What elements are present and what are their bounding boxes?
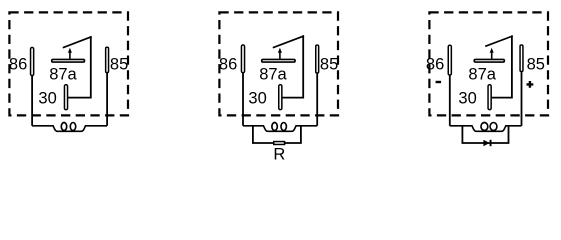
relay 2 suppression branch wires [253,126,301,143]
relay 3 pin label 30 [458,89,476,107]
relay 3 switch armature [486,36,512,46]
relay 3 contact label 87a [468,66,496,84]
relay 3 switch arrow [490,48,494,59]
relay 3 pin label 85 [527,55,545,73]
svg-text:87a: 87a [49,66,77,84]
svg-text:86: 86 [9,56,27,74]
relay 3 wire pin 86 to coil [449,75,451,126]
relay 1 dashed enclosure [9,12,128,115]
relay 2 pin label 86 [219,56,237,74]
svg-text:30: 30 [38,89,56,107]
relay 1 terminal pin 85 [106,47,109,72]
relay 3 wire armature to pin 30 [492,36,512,97]
relay 1 terminal pin 86 [31,48,34,76]
relay 1 wire pin 85 to coil [106,73,108,126]
relay 2 dashed enclosure [219,12,338,115]
svg-text:86: 86 [219,56,237,74]
relay 2 pin label 85 [320,55,338,73]
relay 1 contact label 87a [49,66,77,84]
svg-text:86: 86 [426,56,444,74]
relay 3 polarity mark plus at pin 85 [527,81,534,88]
relay 2 coil winding [243,123,317,132]
svg-text:R: R [273,146,285,164]
relay 1 terminal pin 30 [64,85,67,110]
relay 1 pin label 85 [110,55,128,73]
relay 3 coil winding [450,123,522,132]
relay 2 terminal pin 85 [316,45,319,73]
svg-text:85: 85 [110,55,128,73]
relay 2 wire pin 86 to coil [242,73,244,126]
relay 3 contact plate 87a [474,59,504,62]
svg-text:87a: 87a [259,66,287,84]
relay 2 switch arrow [278,48,282,59]
relay 1 wire pin 86 to coil [31,76,33,126]
relay 1 coil winding [32,123,107,132]
relay 2 contact label 87a [259,66,287,84]
svg-text:30: 30 [248,89,266,107]
relay 3 polarity mark minus at pin 86 [436,81,442,83]
relay 2 resistor R body [274,142,285,145]
relay 3 pin label 86 [426,56,444,74]
svg-text:85: 85 [527,55,545,73]
relay 2 wire pin 85 to coil [316,73,318,126]
relay 3 suppression branch wires [462,126,508,143]
relay 1 contact plate 87a [52,59,85,62]
relay 3 dashed enclosure [429,12,548,115]
relay 2 wire armature to pin 30 [283,36,304,97]
svg-text:87a: 87a [468,66,496,84]
relay 3 terminal pin 85 [520,45,523,72]
svg-text:30: 30 [458,89,476,107]
relay 2 contact plate 87a [262,59,295,62]
relay 2 pin label 30 [248,89,266,107]
relay 2 switch armature [274,36,304,47]
relay 3 suppression diode [483,140,491,146]
relay 3 terminal pin 30 [488,85,491,110]
relay 2 terminal pin 86 [241,45,244,73]
relay 1 wire armature to pin 30 [68,37,91,98]
relay 1 pin label 30 [38,89,56,107]
relay 3 wire pin 85 to coil [521,72,523,126]
relay 1 switch arrow [68,48,72,59]
svg-text:85: 85 [320,55,338,73]
relay 2 resistor label R [273,146,285,164]
relay 2 terminal pin 30 [279,85,282,110]
relay 3 terminal pin 86 [448,45,451,75]
relay 1 switch armature [64,37,91,47]
relay 1 pin label 86 [9,56,27,74]
